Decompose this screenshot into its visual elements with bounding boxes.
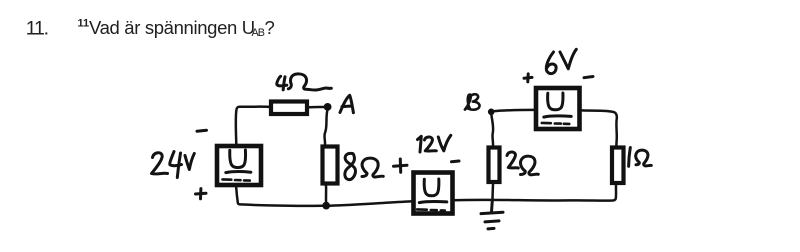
label 8Ω	[345, 153, 383, 179]
ground	[481, 200, 503, 229]
wire node A to resistor R2	[324, 111, 327, 145]
svg-text:?: ?	[265, 17, 275, 38]
resistor R1 (4Ω box)	[271, 102, 307, 115]
polarity plus of source U2	[394, 159, 408, 172]
voltage source U1 (24V box)	[217, 146, 261, 185]
label 1Ω	[629, 148, 652, 167]
resistor R2 (8Ω box)	[323, 147, 338, 184]
dashed line of source U2 symbol	[417, 209, 445, 210]
resistor R3 (2Ω box)	[489, 148, 500, 183]
wire junction to source U2	[330, 201, 411, 205]
svg-text:11.: 11.	[26, 17, 48, 39]
wire node B to source U3	[493, 110, 535, 111]
wire R3 bottom to ground rail	[491, 184, 494, 199]
voltage source U2 (12V box)	[414, 173, 453, 214]
node B	[488, 109, 495, 116]
polarity plus of source U1	[196, 189, 207, 199]
node A	[324, 103, 332, 111]
wire U1 top to resistor R1	[236, 107, 270, 145]
svg-text:Vad är spänningen U: Vad är spänningen U	[89, 17, 255, 38]
dashed line of source U3 symbol	[542, 123, 570, 124]
polarity minus of source U3	[584, 77, 593, 78]
wire U3 right to resistor R4	[582, 110, 617, 145]
U symbol of source U3	[544, 93, 571, 117]
svg-text:AB: AB	[252, 27, 265, 39]
polarity plus of source U3	[524, 74, 532, 82]
wire R2 bottom to junction	[325, 186, 328, 204]
dashed line of source U1 symbol	[223, 179, 250, 180]
label 6V	[546, 49, 576, 73]
label 24V	[152, 152, 195, 178]
label B	[465, 94, 480, 109]
U symbol of source U2	[419, 179, 447, 203]
svg-text:11: 11	[78, 18, 90, 30]
wire U1 bottom to junction	[236, 188, 322, 206]
U symbol of source U1	[226, 150, 251, 173]
label A	[340, 95, 353, 112]
wire R1 to node A	[309, 106, 324, 109]
polarity minus of source U2	[452, 160, 460, 164]
polarity minus of source U1	[197, 130, 207, 131]
resistor R4 (1Ω box)	[612, 148, 624, 184]
label 4Ω	[277, 74, 332, 90]
junction node	[322, 202, 330, 210]
voltage source U3 (6V box)	[536, 88, 580, 129]
wire node B to resistor R3	[491, 114, 493, 146]
wire U2 right along bottom to resistor R4	[453, 185, 616, 200]
label 12V	[418, 135, 451, 152]
label 2Ω	[507, 152, 538, 175]
